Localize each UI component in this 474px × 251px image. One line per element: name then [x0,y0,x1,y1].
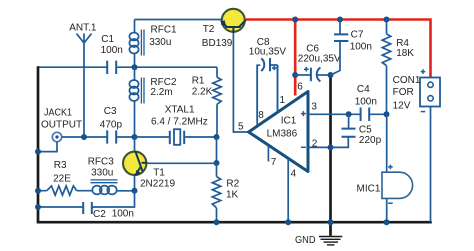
wire RFC1 vertical line [134,20,136,68]
wire XTAL row [135,136,217,138]
transistor T2 BD139 [222,9,245,32]
svg-text:18K: 18K [396,48,414,59]
wire XTAL junction down to base node [216,137,218,163]
svg-text:JACK1: JACK1 [44,108,72,119]
node jack/antenna junction [81,134,87,140]
svg-text:C5: C5 [359,124,372,135]
wire pin5 to T2 base [233,30,248,132]
svg-text:100n: 100n [101,45,123,56]
svg-text:C3: C3 [104,106,117,117]
wire T1 collector [134,137,136,152]
antenna ANT.1 [77,34,92,138]
node C2 left on bus [35,204,41,210]
svg-text:C4: C4 [357,84,370,95]
capacitor C8 10u,35V [257,65,260,121]
pin 8 wire [256,65,258,125]
node rail/pin6 [292,17,298,23]
svg-text:8: 8 [258,110,264,121]
svg-text:C1: C1 [101,34,114,45]
wire R1 branch [216,67,218,137]
svg-text:220u,35V: 220u,35V [298,53,341,64]
node pin6/C6 junction [292,72,298,78]
svg-text:220p: 220p [359,135,382,146]
capacitor C2 100n [83,202,92,214]
plus mark C6 [304,67,309,72]
svg-text:T1: T1 [153,168,165,179]
wire pin2 row [308,137,348,148]
svg-text:IC1: IC1 [281,115,297,126]
node MIC1 on rail [384,219,390,225]
node R2 bottom on rail [214,219,220,225]
node pin3/C5 [346,111,352,117]
wire C3 to node [116,136,134,138]
wire C2 row [38,191,135,207]
inductor RFC3 330u [91,180,118,195]
svg-text:6: 6 [297,81,303,92]
svg-text:100n: 100n [112,209,134,220]
red wire pin6 supply [294,20,297,96]
minus mark MIC1 [388,202,393,204]
pin 1 wire [277,65,279,112]
wire pin3 row [308,113,361,115]
svg-text:RFC3: RFC3 [88,156,115,167]
resistor R1 2.2K [213,77,221,104]
jack JACK1 output [52,132,61,141]
node rail/C7 [337,17,343,23]
svg-text:470p: 470p [100,120,123,131]
capacitor C5 220p [342,129,356,137]
plus mark MIC1 [388,165,393,170]
black left ground bus [37,66,40,222]
node C6/C7/ground-bus junction [328,72,334,78]
svg-text:2: 2 [312,139,318,150]
svg-text:R2: R2 [226,179,239,190]
black center ground bus [329,75,332,236]
svg-text:R3: R3 [54,160,67,171]
transistor T1 2N2219 [123,152,146,175]
microphone MIC1 [386,114,388,172]
wire RFC2 vertical [134,67,136,137]
svg-text:R1: R1 [192,75,205,86]
svg-text:T2: T2 [203,24,215,35]
svg-text:100n: 100n [355,97,377,108]
svg-text:330u: 330u [149,37,171,48]
node pin2 on ground bus [328,144,334,150]
wire main horizontal bus y=67.2 [38,66,217,68]
svg-text:C7: C7 [351,30,364,41]
op-amp IC1 LM386 [249,92,308,172]
wire R2 top lead [216,163,218,222]
svg-text:7: 7 [271,157,277,168]
svg-text:2N2219: 2N2219 [140,179,175,190]
resistor R4 18K [386,20,388,34]
capacitor C6 220u,35V [295,74,310,76]
svg-text:FOR: FOR [393,87,414,98]
svg-text:MIC1: MIC1 [357,184,381,195]
svg-text:5: 5 [238,121,244,132]
node pin4 on rail [285,219,291,225]
node rail/R4 [384,17,390,23]
svg-text:XTAL1: XTAL1 [165,105,195,116]
resistor R3 22E [47,186,77,195]
crystal XTAL1 6.4/7.2MHz [170,131,184,144]
svg-text:GND: GND [295,235,316,246]
svg-text:ANT.1: ANT.1 [69,23,97,34]
capacitor C1 100n [107,61,116,74]
node jack sleeve on bus [35,149,41,155]
plus minus marks IC1 [301,111,306,116]
svg-text:RFC1: RFC1 [151,24,178,35]
connector CON1 [420,78,440,107]
svg-text:C2: C2 [93,209,106,220]
inductor RFC2 2.2m [129,78,144,104]
inductor RFC1 330u [129,30,144,56]
node T1 base node [214,160,220,166]
black bottom ground rail [37,221,432,224]
svg-text:12V: 12V [393,101,411,112]
wire T1 emitter [134,175,136,191]
plus mark C8 [272,66,277,71]
capacitor C7 100n [339,20,341,35]
wire jack sleeve to bus [38,142,57,152]
pin 4 wire [287,159,289,222]
svg-text:1: 1 [280,95,286,106]
node C4/R4/MIC junction [384,111,390,117]
svg-text:330u: 330u [91,168,113,179]
svg-text:1K: 1K [226,190,239,201]
svg-text:100n: 100n [350,42,372,53]
node R3 left on bus [35,188,41,194]
svg-text:R4: R4 [396,38,409,49]
node XTAL right junction [214,134,220,140]
minus mark CON1 [421,111,426,113]
pin 7 stub [267,146,269,162]
node ground bus on rail [328,219,334,225]
node emitter/RFC3 junction [132,188,138,194]
plus mark CON1 [421,69,426,74]
svg-text:2.2m: 2.2m [150,87,172,98]
svg-text:LM386: LM386 [267,128,298,139]
wire jack tip to C3 [62,136,107,138]
svg-text:OUTPUT: OUTPUT [41,119,82,130]
svg-text:6.4 / 7.2MHz: 6.4 / 7.2MHz [151,117,208,128]
svg-text:2.2K: 2.2K [192,87,213,98]
svg-text:22E: 22E [53,174,71,185]
svg-text:BD139: BD139 [202,38,233,49]
red +12V rail [246,20,431,78]
wire top emitter T2 to RFC1 [135,19,222,21]
svg-text:4: 4 [291,168,297,179]
svg-text:10u,35V: 10u,35V [249,46,287,57]
svg-text:3: 3 [311,101,317,112]
node XTAL left junction [132,134,138,140]
capacitor C3 470p [107,130,116,143]
svg-text:CON1: CON1 [393,75,421,86]
capacitor C4 100n [361,108,370,122]
wire T1 base to node [147,162,216,164]
node junction RFC1/RFC2/C1 [132,64,138,70]
resistor R2 1K [212,177,220,208]
